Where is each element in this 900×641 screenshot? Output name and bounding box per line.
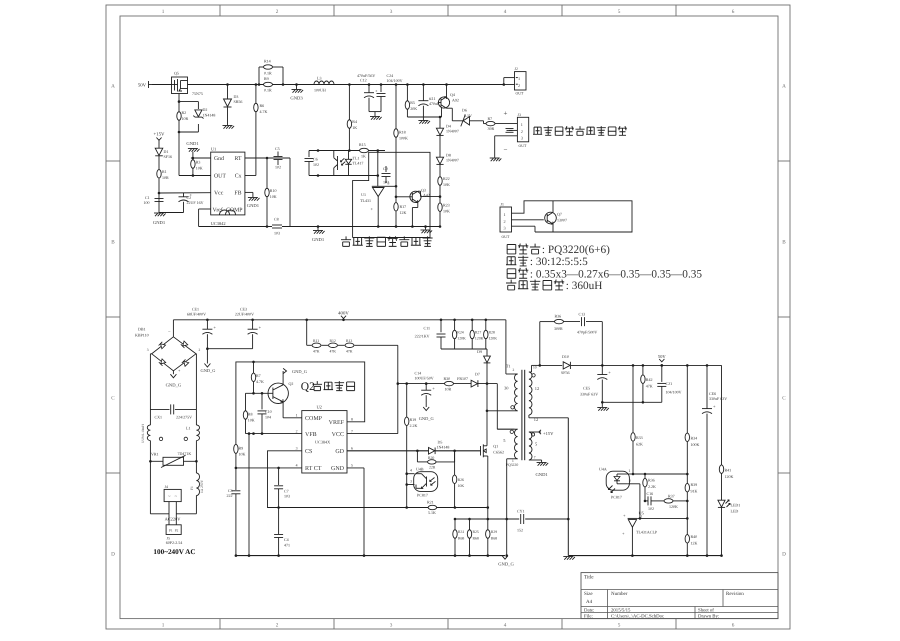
transistor Q2 xyxy=(268,383,288,403)
ground GND1 xyxy=(317,227,319,231)
wire cap commons to ground xyxy=(369,111,381,113)
svg-text:222/1KV: 222/1KV xyxy=(415,334,430,339)
svg-text:2.2K: 2.2K xyxy=(410,423,418,428)
svg-text:47K: 47K xyxy=(346,349,353,353)
svg-text:R42: R42 xyxy=(646,377,653,382)
svg-text:Q2: Q2 xyxy=(289,381,294,386)
resistor R15 1K xyxy=(360,148,369,152)
svg-text:U1: U1 xyxy=(361,192,366,197)
capacitor C14 100UF/50V xyxy=(425,384,427,391)
svg-text:7D471K: 7D471K xyxy=(178,451,192,456)
diode D3 SR56 xyxy=(227,85,229,100)
capacitor C21 104/100V xyxy=(661,364,664,367)
svg-text:91K: 91K xyxy=(691,488,698,493)
resistor R18 100K xyxy=(395,85,397,129)
svg-text:PC817: PC817 xyxy=(611,495,622,500)
svg-text:47K: 47K xyxy=(646,384,653,389)
svg-text:2: 2 xyxy=(504,219,506,224)
transformer note line1 xyxy=(507,244,516,253)
wire source column xyxy=(487,506,490,509)
svg-text:P2: P2 xyxy=(175,529,179,533)
svg-text:R7: R7 xyxy=(488,116,493,121)
svg-text:C9: C9 xyxy=(383,166,388,171)
svg-text:3: 3 xyxy=(521,136,523,141)
capacitor C6 102 xyxy=(308,151,310,158)
resistor R4 1K xyxy=(348,85,350,120)
svg-text:7: 7 xyxy=(351,429,353,433)
svg-text:GND1: GND1 xyxy=(312,237,325,242)
capacitor C12 470uF/56V xyxy=(368,85,370,93)
svg-text:6: 6 xyxy=(732,623,735,629)
svg-text:LED: LED xyxy=(731,509,739,514)
wire GND pin 5 xyxy=(347,467,364,469)
svg-text:5.1V: 5.1V xyxy=(464,113,472,118)
svg-text:R10: R10 xyxy=(270,188,277,193)
svg-text:GND_G: GND_G xyxy=(498,562,514,567)
svg-text:R37: R37 xyxy=(668,493,675,498)
svg-text:104/100V: 104/100V xyxy=(666,389,682,394)
wire CS loop xyxy=(268,451,391,508)
svg-text:C6562: C6562 xyxy=(493,450,504,455)
svg-text:Sheet of: Sheet of xyxy=(698,607,714,613)
svg-text:D10: D10 xyxy=(562,354,569,359)
capacitor C5 102 xyxy=(277,152,279,157)
wire tap down to secondary gnd xyxy=(567,418,569,556)
svg-text:GND1: GND1 xyxy=(153,220,166,225)
svg-text:10K: 10K xyxy=(458,484,465,488)
svg-text:A: A xyxy=(111,84,115,90)
svg-text:VREF: VREF xyxy=(329,420,345,426)
svg-text:R3: R3 xyxy=(196,160,201,165)
svg-text:1N4148: 1N4148 xyxy=(203,113,216,118)
svg-text:102: 102 xyxy=(275,165,281,170)
wire TL431 ref to R17 column xyxy=(385,185,397,187)
diode D7 FR107 xyxy=(471,380,477,387)
svg-text:J3: J3 xyxy=(518,113,521,117)
svg-text:1: 1 xyxy=(162,623,165,629)
svg-text:Q1: Q1 xyxy=(493,444,498,449)
resistor R33 62K xyxy=(632,364,635,367)
svg-text:R27: R27 xyxy=(475,331,481,335)
diode D5 1N4148 xyxy=(429,448,435,455)
svg-text:4: 4 xyxy=(296,464,298,468)
svg-text:Gnd: Gnd xyxy=(214,155,224,162)
svg-text:: 0.35x3—0.27x6—0.35—0.35—0.35: : 0.35x3—0.27x6—0.35—0.35—0.35 xyxy=(530,268,702,280)
svg-text:120K: 120K xyxy=(489,337,498,341)
connector J2 OUT xyxy=(504,84,515,86)
capacitor C10 104 xyxy=(261,393,263,409)
svg-text:R11: R11 xyxy=(313,339,319,343)
svg-text:GD: GD xyxy=(335,449,344,455)
TL431 U5 xyxy=(628,517,638,519)
svg-text:4.7K: 4.7K xyxy=(256,379,264,384)
ground xyxy=(418,120,428,122)
connector J1 xyxy=(500,207,512,232)
resistor R9 0.1R in rail xyxy=(264,82,273,86)
svg-text:PC817: PC817 xyxy=(417,493,428,498)
svg-text:R21: R21 xyxy=(427,500,434,505)
svg-text:100K: 100K xyxy=(399,135,408,140)
svg-text:R19: R19 xyxy=(410,417,417,422)
svg-text:R33: R33 xyxy=(636,435,643,440)
varistor VR1 7D471K xyxy=(149,460,152,463)
svg-text:5: 5 xyxy=(618,623,621,629)
wire opto U4B pins xyxy=(406,384,408,417)
svg-text:C5: C5 xyxy=(275,146,280,151)
sense resistors R31 R25 R29 R68 xyxy=(455,518,488,520)
startup resistors R11 R12 R13 47K xyxy=(305,319,308,322)
svg-text:0.1R: 0.1R xyxy=(264,71,272,76)
svg-text:GND_G: GND_G xyxy=(201,368,217,373)
svg-text:10R: 10R xyxy=(162,175,169,180)
wire J3 pin3 to ground xyxy=(495,135,518,137)
opto U4B PC817 xyxy=(414,472,438,492)
resistor R34 100K xyxy=(686,364,689,367)
svg-text:T1: T1 xyxy=(506,364,511,369)
svg-text:4: 4 xyxy=(504,9,507,15)
svg-text:2.2K: 2.2K xyxy=(648,484,656,489)
wire Q3 collector to D8/R22 node xyxy=(418,190,421,192)
svg-text:R30: R30 xyxy=(444,376,451,381)
resistor R3 10K xyxy=(191,160,195,169)
svg-text:+: + xyxy=(608,370,611,375)
svg-text:R68: R68 xyxy=(491,536,497,540)
svg-text:60P2-2.54: 60P2-2.54 xyxy=(166,540,183,545)
svg-text:Vcc: Vcc xyxy=(214,191,224,197)
svg-text:GND1: GND1 xyxy=(535,472,548,477)
ground at box xyxy=(424,225,427,228)
MOSFET Q1 C6562 xyxy=(480,446,482,456)
resistor R17 12K xyxy=(394,203,398,212)
wire bottom rail GND1 xyxy=(282,226,440,228)
svg-text:2: 2 xyxy=(199,348,201,352)
snubber cap C11 222/1KV xyxy=(440,320,442,333)
svg-text:+: + xyxy=(504,110,508,118)
svg-text:R6: R6 xyxy=(260,103,265,108)
svg-text:10R: 10R xyxy=(445,387,452,392)
capacitor CE1 68UF/400V xyxy=(206,320,208,329)
svg-text:330uF 63V: 330uF 63V xyxy=(709,396,727,401)
svg-text:68UF/400V: 68UF/400V xyxy=(187,312,206,317)
IC U2 UC384X xyxy=(302,411,347,473)
svg-text:1A 250V: 1A 250V xyxy=(200,480,204,493)
svg-text:R22: R22 xyxy=(443,176,450,181)
svg-text:47K: 47K xyxy=(313,349,320,353)
svg-text:1: 1 xyxy=(296,414,298,418)
aux winding 5T right +15V xyxy=(529,432,532,460)
wire RT CT xyxy=(236,467,302,469)
svg-text:Drawn By:: Drawn By: xyxy=(698,613,719,619)
svg-text:TL431ACLP: TL431ACLP xyxy=(636,530,658,535)
svg-text:104/100V: 104/100V xyxy=(387,78,403,83)
svg-text:CX1: CX1 xyxy=(154,415,162,420)
capacitor C2 22UF 16V xyxy=(183,193,185,197)
wire J3 pin2 stub xyxy=(509,129,517,131)
svg-text:UU9.8-10mH: UU9.8-10mH xyxy=(141,424,145,443)
svg-text:330uF 63V: 330uF 63V xyxy=(580,392,598,397)
wire feedback top xyxy=(309,150,385,152)
wire Q4 emitter to rail xyxy=(446,85,448,97)
svg-text:C13: C13 xyxy=(579,312,586,317)
svg-text:100: 100 xyxy=(144,200,150,205)
svg-text:R7: R7 xyxy=(256,373,261,378)
transformer note line3 xyxy=(507,269,516,278)
svg-text:3: 3 xyxy=(390,9,393,15)
capacitor CE6 330uF 63V xyxy=(706,364,709,367)
svg-text:222: 222 xyxy=(227,493,233,498)
wire Vref pin to bottom rail xyxy=(199,208,211,210)
svg-text:SF56: SF56 xyxy=(561,370,569,375)
svg-text:103: 103 xyxy=(284,494,290,499)
svg-text:CE5: CE5 xyxy=(583,386,590,391)
wire R2/D2 loop xyxy=(179,101,198,103)
svg-text:: 360uH: : 360uH xyxy=(566,280,603,292)
svg-text:TL417: TL417 xyxy=(353,161,364,166)
wire startup to VCC node xyxy=(397,345,399,433)
svg-text:120K: 120K xyxy=(669,504,678,509)
svg-text:UC384X: UC384X xyxy=(315,440,330,445)
svg-text:0.1R: 0.1R xyxy=(264,88,272,93)
svg-text:GND1: GND1 xyxy=(247,203,260,208)
svg-text:1: 1 xyxy=(641,514,643,518)
svg-text:A: A xyxy=(782,84,786,90)
svg-text:J2: J2 xyxy=(515,67,518,71)
capacitor C9 102 xyxy=(385,166,387,172)
connector J4 AC in xyxy=(164,489,181,501)
resistor R41 120K xyxy=(721,365,723,465)
svg-text:R36: R36 xyxy=(555,314,562,319)
transistor Q3 A42 xyxy=(410,191,421,202)
wire VREF loop around Q2 xyxy=(236,362,365,445)
svg-text:100UH: 100UH xyxy=(314,88,326,93)
ground secondary rail xyxy=(563,556,573,558)
svg-text:R29: R29 xyxy=(491,530,497,534)
svg-text:120K: 120K xyxy=(475,337,484,341)
svg-text:D2: D2 xyxy=(203,107,208,112)
svg-text:10R: 10R xyxy=(182,116,189,121)
svg-text:R20: R20 xyxy=(428,456,434,460)
resistor R14 0.1R parallel xyxy=(258,67,260,85)
svg-text:R68: R68 xyxy=(458,536,464,540)
svg-text:1: 1 xyxy=(162,9,165,15)
svg-text:R28: R28 xyxy=(489,331,495,335)
svg-text:1: 1 xyxy=(521,122,523,127)
transistor Q5 75N75 xyxy=(172,77,188,94)
svg-text:Vref: Vref xyxy=(213,206,223,213)
svg-text:1K: 1K xyxy=(352,125,357,130)
capacitor C3 222 xyxy=(235,468,237,490)
wire rails to VR1 xyxy=(149,441,151,473)
svg-text:3: 3 xyxy=(504,226,506,231)
svg-text:+: + xyxy=(259,325,262,330)
svg-text:B: B xyxy=(111,240,115,246)
transistor Q7 13007 xyxy=(545,212,557,224)
svg-text:10K: 10K xyxy=(248,417,255,422)
svg-text:5: 5 xyxy=(618,9,621,15)
svg-text:: 30:12:5:5:5: : 30:12:5:5:5 xyxy=(530,256,588,268)
svg-text:R36: R36 xyxy=(648,478,655,483)
svg-text:R25: R25 xyxy=(473,530,479,534)
svg-text:10K: 10K xyxy=(443,182,450,187)
wire Q3 base xyxy=(396,196,409,198)
svg-text:R2: R2 xyxy=(182,110,187,115)
ground xyxy=(223,125,233,127)
svg-text:L1: L1 xyxy=(186,426,190,431)
resistor R7 4.7K xyxy=(252,361,255,364)
resistor R23 10K xyxy=(438,203,442,212)
diodes D4 D8 string xyxy=(439,117,441,128)
svg-text:R13: R13 xyxy=(346,339,352,343)
wire aux return column xyxy=(506,459,508,556)
svg-text:10K: 10K xyxy=(196,165,203,170)
wire base bias xyxy=(407,116,441,118)
wire RT pin xyxy=(245,157,290,159)
svg-text:R4: R4 xyxy=(352,119,357,124)
svg-text:400V: 400V xyxy=(338,311,349,317)
svg-text:R31: R31 xyxy=(458,530,464,534)
svg-text:R12: R12 xyxy=(330,339,336,343)
bridge rectifier DB1 KBP110 xyxy=(152,337,196,371)
svg-text:A92: A92 xyxy=(452,97,459,102)
capacitor CE3 22UF/400V xyxy=(252,320,254,329)
capacitor CE5 330uF 63V xyxy=(601,364,604,367)
svg-text:GND_G: GND_G xyxy=(419,416,435,421)
wire aux winding to VCC xyxy=(496,384,498,430)
svg-text:+15V: +15V xyxy=(154,132,166,138)
svg-text:22UF 16V: 22UF 16V xyxy=(187,200,204,205)
svg-text:COMP: COMP xyxy=(305,416,323,422)
inductor L3 100UH xyxy=(314,81,334,84)
svg-text:12: 12 xyxy=(534,417,538,422)
wire U4A pins xyxy=(628,473,633,475)
svg-text:Q5: Q5 xyxy=(174,71,179,76)
svg-text:B: B xyxy=(782,240,786,246)
svg-text:D6: D6 xyxy=(462,108,467,113)
svg-text:LED1: LED1 xyxy=(731,503,741,508)
svg-text:R9: R9 xyxy=(239,446,244,451)
svg-text:100K: 100K xyxy=(691,442,700,447)
svg-text:Number: Number xyxy=(611,591,628,597)
svg-text:Date:: Date: xyxy=(584,607,594,613)
svg-text:PQ3220: PQ3220 xyxy=(506,463,519,467)
svg-text:62K: 62K xyxy=(636,441,643,446)
svg-text:100~240V AC: 100~240V AC xyxy=(153,548,195,556)
svg-text:104: 104 xyxy=(265,414,271,419)
capacitor C11 470uF/50V xyxy=(422,85,424,101)
wire GD pin 6 gate drive xyxy=(347,450,481,452)
port 50V out xyxy=(661,364,664,367)
svg-text:Q7: Q7 xyxy=(557,212,562,217)
svg-text:GND_G: GND_G xyxy=(292,369,308,374)
svg-text:C8: C8 xyxy=(274,217,279,222)
svg-text:L3: L3 xyxy=(317,76,321,81)
capacitor C1 xyxy=(155,198,164,200)
svg-text:102: 102 xyxy=(383,180,389,185)
primary winding 30T xyxy=(515,374,518,411)
svg-text:2: 2 xyxy=(521,129,523,134)
secondary snubber R36 300R + C13 xyxy=(539,322,541,366)
resistor R30 10R xyxy=(445,381,454,385)
svg-text:C16: C16 xyxy=(647,491,654,496)
secondary winding 12+12 xyxy=(529,372,532,415)
svg-text:Revision: Revision xyxy=(726,591,744,597)
resistor R40 12K xyxy=(686,518,688,534)
resistor R20 22R parallel xyxy=(416,451,418,462)
svg-text:103: 103 xyxy=(274,231,280,236)
annotation text in-box components optional xyxy=(341,236,351,246)
wire vertical xyxy=(289,158,291,227)
svg-text:C4: C4 xyxy=(284,537,289,542)
svg-text:5.1K: 5.1K xyxy=(428,510,436,515)
TL431 U1b xyxy=(377,151,379,187)
svg-text:Size: Size xyxy=(584,591,593,597)
svg-text:Q4: Q4 xyxy=(450,92,455,97)
svg-text:470pF/500V: 470pF/500V xyxy=(577,330,597,335)
svg-text:10K: 10K xyxy=(270,194,277,199)
resistor R9b 10K xyxy=(235,444,237,446)
svg-text:FR107: FR107 xyxy=(457,376,468,381)
capacitor CX1 224/275V xyxy=(150,408,169,410)
svg-text:1N4007: 1N4007 xyxy=(446,158,459,163)
svg-text:R23: R23 xyxy=(443,203,450,208)
svg-text:D: D xyxy=(111,552,115,558)
svg-text:R5: R5 xyxy=(410,100,415,105)
svg-text:13007: 13007 xyxy=(557,218,567,223)
svg-text:7: 7 xyxy=(534,456,536,460)
svg-text:R68: R68 xyxy=(473,536,479,540)
svg-text:OUT: OUT xyxy=(214,173,226,179)
capacitor C24 104/100V xyxy=(380,85,382,93)
svg-text:OUT: OUT xyxy=(519,144,527,148)
svg-text:GND_G: GND_G xyxy=(166,383,182,388)
svg-text:P1: P1 xyxy=(169,529,173,533)
svg-text:22R: 22R xyxy=(429,466,436,470)
wire Q4 collector to zener D6 xyxy=(447,107,453,109)
connector J3 OUT xyxy=(517,117,528,142)
resistor R42 47K xyxy=(642,364,645,367)
svg-text:R26: R26 xyxy=(458,478,464,482)
svg-text:C6: C6 xyxy=(313,157,318,162)
svg-text:R41: R41 xyxy=(725,467,732,472)
svg-text:300R: 300R xyxy=(554,326,563,331)
svg-text:AC220V: AC220V xyxy=(165,517,182,522)
svg-text:CS: CS xyxy=(305,449,312,455)
svg-text:KBP110: KBP110 xyxy=(135,333,149,338)
diode D10 SF56 xyxy=(540,364,562,366)
resistor R22 10K xyxy=(438,177,442,186)
wire Q2 emitter to COMP xyxy=(282,402,284,418)
transformer note line2 xyxy=(506,257,516,265)
wire secondary gnd rail xyxy=(568,555,721,557)
svg-text:J4: J4 xyxy=(165,485,168,489)
svg-text:SR56: SR56 xyxy=(234,99,243,104)
wire AC right rail xyxy=(195,353,197,355)
svg-text:U1: U1 xyxy=(211,146,216,151)
IC U1 UC3842 xyxy=(211,152,245,215)
svg-text:6: 6 xyxy=(732,9,735,15)
snubber resistors R24 R27 R28 120K xyxy=(453,319,456,322)
svg-text:D7: D7 xyxy=(475,372,480,377)
svg-text:8: 8 xyxy=(351,418,353,422)
svg-text:Cx: Cx xyxy=(235,173,242,179)
resistor R5b 39R xyxy=(486,121,495,125)
resistor R39 91K xyxy=(686,474,688,483)
resistor R26 10K xyxy=(454,451,456,476)
capacitor C16 102 xyxy=(645,500,648,502)
svg-text:224/275V: 224/275V xyxy=(176,415,192,420)
aux winding 5T left xyxy=(515,429,518,459)
svg-text:12K: 12K xyxy=(400,210,407,215)
